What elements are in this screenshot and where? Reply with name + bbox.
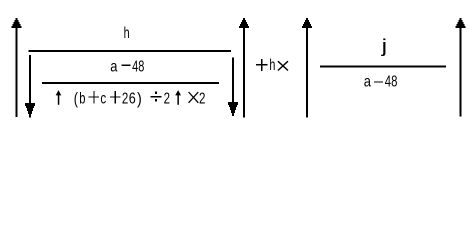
- svg-text:(: (: [74, 89, 78, 108]
- dimension arrow A2 (down arrow under left end of bar1): [25, 55, 35, 118]
- fraction bar 1 (left numerator bar): [29, 50, 232, 52]
- fraction bar 2 (left lower bar): [42, 82, 219, 84]
- divide sign: [151, 92, 162, 102]
- svg-text:2: 2: [164, 90, 170, 107]
- dimension arrow A3 (down arrow under right end of bar1): [228, 58, 238, 117]
- svg-text:b: b: [79, 90, 85, 107]
- svg-text:2: 2: [122, 90, 128, 107]
- dimension arrow A5 (tall up arrow): [302, 18, 312, 118]
- svg-text:a: a: [364, 74, 371, 91]
- svg-text:h: h: [269, 57, 275, 74]
- text up-arrow glyph 2: [175, 90, 181, 105]
- fraction bar 3 (right): [320, 66, 446, 68]
- plus sign 2: [110, 91, 121, 103]
- svg-text:h: h: [124, 25, 130, 42]
- svg-text:48: 48: [132, 59, 144, 76]
- plus sign 1: [89, 91, 100, 103]
- svg-text:a: a: [110, 59, 117, 76]
- svg-text:2: 2: [199, 90, 205, 107]
- multiply sign (row): [189, 92, 199, 103]
- text up-arrow glyph 1: [56, 90, 62, 105]
- svg-text:j: j: [380, 35, 387, 56]
- svg-text:): ): [137, 89, 142, 108]
- svg-text:c: c: [100, 90, 106, 107]
- multiply sign after h: [278, 61, 288, 70]
- svg-text:48: 48: [385, 74, 398, 91]
- dimension arrow A6 (tall up arrow, far right): [456, 18, 466, 117]
- plus sign of +h: [256, 59, 268, 71]
- dimension arrow A1 (tall up arrow, far left): [11, 18, 21, 117]
- dimension arrow A4 (tall up arrow): [239, 18, 249, 118]
- svg-text:6: 6: [129, 90, 136, 107]
